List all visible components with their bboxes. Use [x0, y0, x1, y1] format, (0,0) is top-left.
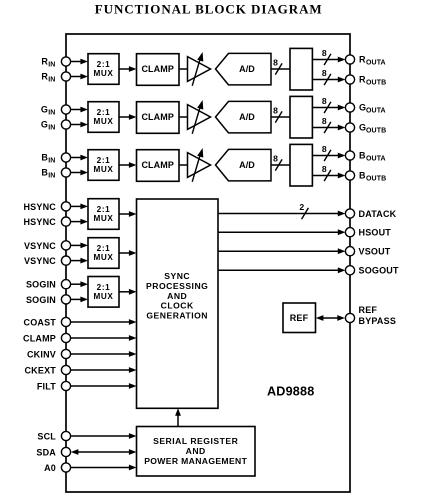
svg-text:CLAMP: CLAMP: [141, 160, 174, 170]
outer chip boundary box: [66, 34, 350, 492]
svg-text:OUTA: OUTA: [366, 60, 386, 67]
wire clamp to amp R: [179, 68, 188, 70]
svg-text:A/D: A/D: [239, 64, 255, 74]
2:1 mux B channel: [88, 150, 119, 181]
sync processing and clock generation block: [137, 199, 219, 408]
input pin A0 circle: [61, 463, 70, 472]
clamp block R: [137, 54, 180, 86]
bus width 8 marker ROUTB: [322, 68, 331, 85]
svg-text:8: 8: [273, 57, 278, 67]
bus width 8 marker ROUTA: [322, 48, 331, 65]
wire CLAMP to sync block: [71, 335, 137, 341]
bidirectional wire REF to REF BYPASS: [316, 315, 345, 321]
output pin SOGOUT circle: [345, 266, 354, 275]
wire clamp to amp B: [179, 164, 188, 166]
svg-text:IN: IN: [48, 158, 55, 165]
svg-text:HSOUT: HSOUT: [359, 228, 392, 238]
svg-text:VSYNC: VSYNC: [24, 256, 56, 266]
svg-text:8: 8: [273, 153, 278, 163]
clamp block G: [137, 102, 180, 134]
output pin VSOUT circle: [345, 247, 354, 256]
svg-text:8: 8: [322, 164, 327, 174]
bus width 8 marker BOUTB: [322, 164, 331, 181]
variable gain amp G: [188, 100, 211, 134]
output pin BOUTA label: [359, 151, 386, 163]
input pin RIN (b) circle: [61, 72, 70, 81]
wire COAST to sync block: [71, 319, 137, 325]
output pin HSOUT circle: [345, 228, 354, 237]
wire SOGIN a to mux: [71, 281, 88, 287]
svg-text:SERIAL REGISTER: SERIAL REGISTER: [153, 436, 238, 446]
wire A/D to latch R: [271, 68, 290, 70]
input pin FILT circle: [61, 381, 70, 390]
input pin GIN (b) label: [41, 120, 56, 132]
input pin BIN (b) circle: [61, 168, 70, 177]
svg-text:A0: A0: [44, 463, 56, 473]
wire sync block to SOGOUT: [218, 267, 345, 273]
input pin HSYNC (b) circle: [61, 217, 70, 226]
svg-text:B: B: [359, 171, 366, 181]
svg-text:MUX: MUX: [94, 69, 114, 78]
svg-text:2:1: 2:1: [97, 108, 111, 117]
wire HSYNC mux to sync block: [119, 211, 137, 217]
input pin CLAMP circle: [61, 333, 70, 342]
pin REF BYPASS label: [359, 305, 397, 326]
wire mux to clamp G: [119, 114, 137, 120]
svg-text:IN: IN: [48, 125, 55, 132]
A/D converter G: [216, 101, 272, 132]
svg-text:IN: IN: [48, 173, 55, 180]
bus width 8 marker BOUTA: [322, 144, 331, 161]
wire BIN a to mux: [71, 155, 88, 161]
wire A0 to serial register: [71, 465, 137, 471]
svg-text:PROCESSING: PROCESSING: [146, 281, 208, 291]
serial register and power management block: [137, 427, 256, 477]
svg-text:MUX: MUX: [94, 165, 114, 174]
output pin ROUTA circle: [345, 55, 354, 64]
svg-text:HSYNC: HSYNC: [23, 202, 56, 212]
svg-text:2:1: 2:1: [97, 60, 111, 69]
A/D converter B: [216, 149, 272, 181]
wire FILT to sync block: [71, 383, 137, 389]
2:1 mux HSYNC: [88, 199, 119, 230]
svg-text:OUTB: OUTB: [366, 128, 386, 135]
input pin COAST circle: [61, 317, 70, 326]
svg-text:AND: AND: [167, 291, 187, 301]
wire SOGIN b to mux: [71, 297, 88, 303]
svg-text:CKINV: CKINV: [27, 349, 56, 359]
output pin DATACK circle: [345, 209, 354, 218]
svg-text:MUX: MUX: [94, 214, 114, 223]
svg-text:R: R: [359, 75, 366, 85]
input pin HSYNC (a) circle: [61, 202, 70, 211]
variable gain amp B: [188, 148, 211, 182]
pin REF BYPASS circle: [345, 313, 354, 322]
svg-text:OUTB: OUTB: [366, 80, 386, 87]
svg-text:8: 8: [322, 68, 327, 78]
bus width 2 marker DATACK: [299, 202, 308, 219]
svg-text:OUTA: OUTA: [366, 108, 386, 115]
svg-text:DATACK: DATACK: [359, 209, 397, 219]
svg-text:CLAMP: CLAMP: [23, 333, 56, 343]
wire VSYNC b to mux: [71, 258, 88, 264]
svg-text:8: 8: [322, 48, 327, 58]
svg-text:2:1: 2:1: [97, 205, 111, 214]
output pin ROUTB circle: [345, 75, 354, 84]
svg-text:FILT: FILT: [37, 381, 56, 391]
input pin GIN (a) circle: [61, 105, 70, 114]
svg-text:CLAMP: CLAMP: [141, 112, 174, 122]
wire latch to GOUTA: [312, 105, 345, 111]
2:1 mux R channel: [88, 54, 119, 85]
bidirectional wire SDA to serial register: [71, 449, 137, 455]
output pin BOUTB label: [359, 171, 386, 183]
svg-text:CLOCK: CLOCK: [161, 301, 194, 311]
svg-text:MUX: MUX: [94, 253, 114, 262]
svg-text:BYPASS: BYPASS: [359, 316, 397, 326]
svg-text:COAST: COAST: [24, 317, 57, 327]
svg-text:G: G: [359, 123, 366, 133]
svg-text:POWER MANAGEMENT: POWER MANAGEMENT: [144, 456, 247, 466]
bus width 8 marker on A/D output B: [273, 153, 282, 170]
bus width 8 marker GOUTA: [322, 96, 331, 113]
wire mux to clamp B: [119, 162, 137, 168]
output latch R: [290, 48, 312, 90]
wire sync block to HSOUT: [218, 229, 345, 235]
wire BIN b to mux: [71, 170, 88, 176]
input pin BIN (a) label: [41, 153, 55, 165]
svg-text:G: G: [41, 120, 48, 130]
svg-text:2:1: 2:1: [97, 156, 111, 165]
wire GIN a to mux: [71, 107, 88, 113]
svg-text:MUX: MUX: [94, 292, 114, 301]
A/D converter R: [216, 53, 272, 85]
bus width 8 marker GOUTB: [322, 116, 331, 133]
svg-text:GENERATION: GENERATION: [146, 311, 208, 321]
svg-text:G: G: [41, 105, 48, 115]
wire RIN b to mux: [71, 74, 88, 80]
svg-text:VSYNC: VSYNC: [24, 241, 56, 251]
svg-text:OUTA: OUTA: [366, 156, 386, 163]
wire CKEXT to sync block: [71, 367, 137, 373]
wire VSYNC a to mux: [71, 243, 88, 249]
input pin CKEXT circle: [61, 365, 70, 374]
wire latch to ROUTA: [312, 57, 345, 63]
svg-text:AND: AND: [186, 446, 206, 456]
svg-text:2:1: 2:1: [97, 283, 111, 292]
svg-text:A/D: A/D: [239, 112, 255, 122]
svg-text:8: 8: [273, 105, 278, 115]
svg-text:IN: IN: [48, 110, 55, 117]
2:1 mux VSYNC: [88, 238, 119, 269]
output pin GOUTB circle: [345, 123, 354, 132]
svg-text:OUTB: OUTB: [366, 176, 386, 183]
wire HSYNC b to mux: [71, 219, 88, 225]
svg-text:CLAMP: CLAMP: [141, 64, 174, 74]
input pin SOGIN (a) circle: [61, 280, 70, 289]
svg-text:CKEXT: CKEXT: [24, 365, 56, 375]
wire sync block to VSOUT: [218, 248, 345, 254]
output pin GOUTA label: [359, 103, 386, 115]
output latch G: [290, 96, 312, 138]
2:1 mux G channel: [88, 102, 119, 133]
svg-text:REF: REF: [359, 305, 378, 315]
wire latch to BOUTA: [312, 153, 345, 159]
svg-text:SDA: SDA: [36, 447, 56, 457]
input pin BIN (b) label: [41, 168, 55, 180]
svg-text:REF: REF: [290, 313, 309, 323]
wire latch to ROUTB: [312, 77, 345, 83]
svg-text:VSOUT: VSOUT: [359, 247, 391, 257]
voltage reference block REF: [283, 303, 316, 333]
input pin SOGIN (b) circle: [61, 295, 70, 304]
input pin SCL circle: [61, 431, 70, 440]
input pin VSYNC (b) circle: [61, 256, 70, 265]
svg-text:AD9888: AD9888: [267, 385, 314, 399]
wire GIN b to mux: [71, 122, 88, 128]
svg-text:SOGOUT: SOGOUT: [359, 266, 400, 276]
svg-text:R: R: [359, 55, 366, 65]
input pin BIN (a) circle: [61, 153, 70, 162]
output pin BOUTB circle: [345, 171, 354, 180]
svg-text:2: 2: [299, 202, 304, 212]
variable gain amp R: [188, 52, 211, 86]
svg-text:SCL: SCL: [37, 431, 56, 441]
svg-text:IN: IN: [48, 77, 55, 84]
wire latch to GOUTB: [312, 125, 345, 131]
bus width 8 marker on A/D output G: [273, 105, 282, 122]
wire VSYNC mux to sync block: [119, 250, 137, 256]
svg-text:8: 8: [322, 144, 327, 154]
svg-text:MUX: MUX: [94, 117, 114, 126]
output pin ROUTB label: [359, 75, 386, 87]
wire clamp to amp G: [179, 116, 188, 118]
wire HSYNC a to mux: [71, 204, 88, 210]
output pin GOUTA circle: [345, 103, 354, 112]
input pin GIN (b) circle: [61, 120, 70, 129]
svg-text:SOGIN: SOGIN: [26, 280, 56, 290]
wire serial register to sync block: [175, 408, 181, 426]
bus width 8 marker on A/D output R: [273, 57, 282, 74]
svg-text:B: B: [359, 151, 366, 161]
wire RIN a to mux: [71, 59, 88, 65]
2:1 mux SOGIN: [88, 277, 119, 308]
svg-text:8: 8: [322, 116, 327, 126]
output latch B: [290, 144, 312, 186]
input pin RIN (b) label: [41, 72, 55, 84]
svg-text:SYNC: SYNC: [164, 271, 190, 281]
wire SCL to serial register: [71, 433, 137, 439]
input pin GIN (a) label: [41, 105, 56, 117]
svg-text:8: 8: [322, 96, 327, 106]
input pin VSYNC (a) circle: [61, 241, 70, 250]
svg-text:A/D: A/D: [239, 160, 255, 170]
input pin SDA circle: [61, 447, 70, 456]
input pin CKINV circle: [61, 349, 70, 358]
output pin GOUTB label: [359, 123, 386, 135]
clamp block B: [137, 150, 180, 182]
svg-text:2:1: 2:1: [97, 244, 111, 253]
svg-text:FUNCTIONAL BLOCK DIAGRAM: FUNCTIONAL BLOCK DIAGRAM: [95, 1, 323, 16]
output pin BOUTA circle: [345, 151, 354, 160]
wire mux to clamp R: [119, 66, 137, 72]
wire latch to BOUTB: [312, 173, 345, 179]
svg-text:G: G: [359, 103, 366, 113]
input pin RIN (a) label: [41, 57, 55, 69]
input pin RIN (a) circle: [61, 57, 70, 66]
wire A/D to latch G: [271, 116, 290, 118]
svg-text:SOGIN: SOGIN: [26, 295, 56, 305]
svg-text:HSYNC: HSYNC: [23, 217, 56, 227]
wire SOGIN mux to sync block: [119, 289, 137, 295]
output pin ROUTA label: [359, 55, 386, 67]
wire CKINV to sync block: [71, 351, 137, 357]
wire sync block to DATACK: [218, 211, 345, 217]
wire A/D to latch B: [271, 164, 290, 166]
svg-text:IN: IN: [48, 62, 55, 69]
